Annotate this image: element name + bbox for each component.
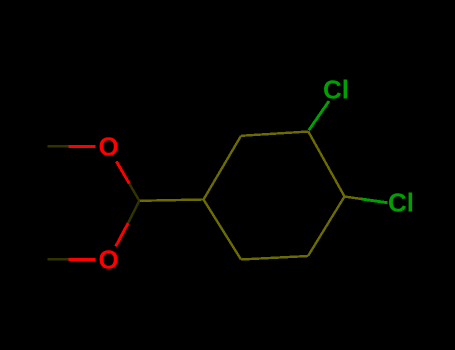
bond CH3-O(top), oxygen half (red) — [69, 145, 96, 148]
bond CH3-O(top), carbon half — [47, 145, 68, 147]
bond ring-Cl(top), chlorine (green) — [309, 101, 329, 130]
svg-text:Cl: Cl — [388, 188, 414, 218]
bond CH3-O(bottom), carbon half — [47, 258, 68, 260]
svg-text:O: O — [98, 245, 118, 275]
wire ring edge TL-TR — [241, 132, 308, 136]
bond CH to O(top), oxygen half (red) — [116, 161, 129, 183]
bond CH to O(bottom), carbon half — [128, 201, 139, 224]
svg-text:Cl: Cl — [323, 75, 349, 105]
wire ring edge BL-L — [204, 200, 242, 260]
bond CH3-O(bottom), oxygen half (red) — [69, 258, 96, 261]
benzene ring C1-C6 — [204, 132, 345, 260]
svg-text:O: O — [98, 132, 118, 162]
wire ring edge L-TL — [204, 136, 242, 200]
bond ring-Cl(right), carbon half — [345, 197, 362, 199]
wire ring edge R-BR — [308, 197, 345, 257]
wire ring edge TR-R — [308, 132, 344, 197]
bond ring-Cl(right), chlorine half (green) — [361, 199, 388, 203]
bond CH-ring (carbon olive) — [139, 200, 203, 201]
bond CH to O(top), carbon half — [129, 184, 139, 201]
wire ring edge BR-BL — [241, 256, 308, 260]
bond CH to O(bottom), oxygen half (red) — [116, 223, 128, 246]
